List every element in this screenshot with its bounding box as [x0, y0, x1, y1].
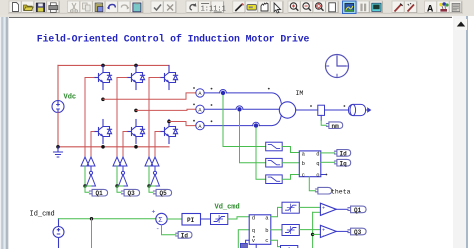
svg-text:Vdc: Vdc	[64, 94, 77, 102]
label tag theta	[316, 187, 332, 194]
wire: buffer B2 input	[122, 166, 124, 171]
wire: top gate leg1	[85, 78, 94, 158]
rerun arrow	[190, 3, 196, 10]
new	[13, 3, 19, 12]
wire: buffer A1 input	[84, 166, 86, 186]
ground	[54, 147, 63, 157]
paste	[95, 2, 103, 12]
svg-text:Q3: Q3	[128, 190, 136, 197]
wire: to Q3 tag	[117, 186, 121, 192]
wire: Vdc top lead	[57, 65, 59, 101]
block PI	[182, 214, 201, 226]
svg-text:c: c	[265, 237, 268, 244]
node: leg3 midpoint	[167, 120, 171, 124]
wire: shaft to load	[325, 109, 349, 111]
zoom in	[290, 3, 298, 11]
svg-text:Q1: Q1	[354, 207, 362, 214]
wire: top gate leg3	[149, 78, 160, 158]
paste teal	[133, 2, 141, 12]
wire: top gate leg2	[117, 78, 127, 158]
wire: branch down	[91, 219, 93, 248]
elements icon	[439, 2, 448, 11]
svg-text:+: +	[152, 209, 156, 216]
gate buffer C2	[151, 157, 159, 166]
wire: bottom DC rail	[58, 146, 169, 148]
wire: motor shaft left	[296, 109, 318, 111]
wire: block bottom stub	[255, 244, 257, 248]
scope	[372, 3, 381, 11]
zoom out	[303, 3, 311, 11]
label tag nm	[327, 122, 343, 129]
label tag Q3 out	[348, 228, 366, 235]
open	[24, 5, 33, 11]
svg-text:-: -	[322, 233, 325, 239]
wire: phase B tap	[136, 109, 196, 110]
node: rail-leg1	[101, 64, 105, 68]
transistor Q4 (bottom IGBT leg1)	[94, 120, 112, 144]
transistor Q2 (bottom IGBT leg3)	[160, 120, 178, 144]
wire: load end arrow	[366, 108, 371, 112]
svg-text:Q5: Q5	[160, 190, 168, 197]
inverter NOT3	[151, 171, 160, 186]
wire: carrier stub 1	[313, 211, 321, 213]
wire: a out to comparator 1	[271, 207, 282, 216]
svg-text:Q1: Q1	[96, 190, 104, 197]
node: leg2 midpoint	[134, 109, 138, 113]
wire: F1 out to abc-dq pin a	[282, 147, 299, 153]
wire: bottom gate leg1	[91, 132, 94, 158]
svg-text:-: -	[156, 226, 160, 233]
wire: phase C to motor	[204, 115, 281, 125]
filter F2	[266, 158, 283, 167]
gate buffer B2	[119, 157, 127, 166]
svg-text:A: A	[198, 90, 202, 97]
op-amp comparator 1	[320, 203, 336, 217]
wire: comp2 to opamp2	[299, 229, 320, 231]
svg-text:v: v	[252, 237, 256, 244]
wire: bottom gate leg3	[155, 132, 160, 158]
label tag Q1 out	[348, 206, 366, 213]
svg-text:d: d	[316, 151, 319, 158]
svg-text:Q3: Q3	[354, 229, 362, 236]
svg-text:theta: theta	[331, 189, 351, 196]
probe 1	[395, 4, 403, 12]
wire: phase A tap	[103, 93, 196, 99]
sensor hoop C	[253, 122, 260, 125]
comparator block 2	[282, 225, 299, 236]
wire: to Q1 tag	[85, 186, 89, 192]
svg-text:nm: nm	[332, 123, 340, 130]
summer S1	[152, 209, 168, 233]
1:1 down	[213, 6, 226, 14]
svg-text:PI: PI	[187, 217, 195, 224]
hand	[261, 3, 268, 11]
svg-text:o: o	[316, 172, 319, 179]
wire: carrier vertical	[312, 212, 314, 248]
wire: summer minus input	[162, 225, 176, 235]
check	[154, 5, 161, 11]
gate buffer A2	[87, 157, 95, 166]
wire: buffer B1 input	[116, 166, 118, 186]
svg-text:Id_cmd: Id_cmd	[30, 211, 55, 219]
wire: NOT3 input	[149, 185, 155, 187]
cut (disabled)	[71, 3, 78, 12]
transistor Q1 (top IGBT leg1)	[94, 66, 112, 90]
wire: probe A sense drop	[223, 96, 266, 147]
pencil	[235, 4, 243, 12]
wire: bottom gate leg2	[123, 132, 127, 158]
sensor hoop A	[220, 90, 227, 93]
node: source-ground junction	[56, 145, 60, 149]
block abc-dq transform	[299, 151, 321, 179]
svg-text:IM: IM	[296, 90, 304, 97]
1:1 up	[201, 4, 214, 14]
wire: top DC rail	[58, 64, 169, 66]
op-amp comparator 2	[320, 225, 336, 239]
wire: q command input	[238, 230, 249, 248]
ammeter Ia	[193, 87, 212, 97]
wire: comp1 to opamp1	[299, 206, 320, 208]
gate drive group leg3	[145, 78, 172, 197]
node: bottomrail-leg1	[101, 145, 105, 149]
run sim	[345, 3, 354, 11]
svg-text:c: c	[302, 172, 305, 179]
node: rail-leg2	[134, 64, 138, 68]
wire: limiter to dq-abc pin d	[228, 217, 249, 219]
node: leg1 midpoint	[101, 98, 105, 102]
svg-text:a: a	[265, 215, 269, 222]
probe 2	[408, 3, 415, 11]
gate drive group leg1	[81, 78, 108, 197]
label tag Id feedback	[176, 232, 192, 239]
comparator block 1	[282, 202, 299, 213]
wire: F3 out to abc-dq pin c	[282, 175, 299, 180]
print	[49, 3, 58, 12]
svg-text:d: d	[252, 215, 255, 222]
wire: theta pin down	[309, 177, 315, 191]
node: Q3 branch	[115, 184, 118, 187]
label capsule	[247, 5, 256, 10]
svg-text:Σ: Σ	[158, 217, 163, 225]
svg-text:q: q	[316, 160, 319, 167]
zoom region	[316, 3, 324, 11]
wire: speed sensor output	[320, 115, 322, 120]
node: Q5 branch	[147, 184, 150, 187]
node: carrier branch	[311, 233, 314, 236]
svg-text:Id: Id	[340, 151, 348, 158]
wire: to Q5 tag	[149, 186, 153, 192]
text A	[427, 4, 433, 15]
fit page	[329, 3, 336, 12]
svg-text:b: b	[302, 160, 305, 167]
wire: NOT2 input	[117, 185, 123, 187]
inverter NOT1	[87, 171, 96, 186]
save	[36, 3, 45, 12]
toolbar	[0, 0, 474, 15]
node: probe C	[254, 123, 258, 127]
wire: F2 out to abc-dq pin b	[282, 162, 299, 164]
copy (disabled)	[83, 3, 91, 11]
transistor Q5 (top IGBT leg3)	[160, 66, 178, 90]
wire: probe B sense drop	[240, 112, 266, 163]
block dq-abc transform	[249, 215, 271, 245]
ammeter Ic	[193, 120, 212, 130]
node: probe B	[237, 107, 241, 111]
wire: q out to Iq tag	[321, 161, 335, 163]
limiter block	[211, 214, 228, 225]
wire: probe C sense drop	[256, 128, 266, 179]
undo	[107, 5, 115, 10]
node: phase A dot	[268, 88, 270, 90]
svg-text:-: -	[322, 211, 325, 217]
gate buffer A1	[81, 157, 89, 166]
wire: phase B to motor	[204, 108, 279, 110]
wire: buffer A2 input	[90, 166, 92, 171]
svg-text:A: A	[198, 123, 202, 130]
cross	[167, 5, 173, 11]
wire: opamp2 out	[336, 230, 348, 232]
node: Q1 branch	[83, 184, 86, 187]
wire: Id_cmd to summer	[59, 218, 156, 220]
svg-text:Vd_cmd: Vd_cmd	[215, 204, 240, 212]
pause	[360, 4, 366, 12]
svg-text:Id: Id	[181, 233, 189, 240]
wire: summer to PI	[167, 218, 182, 220]
filter F3	[266, 175, 283, 184]
label tag Q5	[154, 189, 172, 196]
label tag Iq	[335, 159, 351, 166]
svg-text:a: a	[302, 151, 306, 158]
svg-text:Iq: Iq	[340, 160, 348, 167]
svg-text:A: A	[198, 107, 202, 114]
wire: carrier stub 2	[313, 233, 321, 235]
node: shaft dot	[344, 105, 346, 107]
gate drive group leg2	[113, 78, 140, 197]
wire: phase A to motor	[204, 93, 281, 103]
wire: c out to comparator 3	[271, 240, 281, 246]
transistor Q3 (top IGBT leg2)	[127, 66, 145, 90]
svg-text:b: b	[265, 227, 268, 234]
speed sensor box	[318, 105, 325, 115]
node: bottomrail-leg2	[134, 145, 138, 149]
wire: PI to limiter	[201, 218, 211, 220]
clock	[326, 55, 349, 78]
wire: Vdc bottom lead	[57, 113, 59, 147]
node: Id_cmd branch	[90, 217, 93, 220]
wire: opamp1 out	[336, 208, 348, 210]
wire: NOT1 input	[85, 185, 91, 187]
label tag Q3	[122, 189, 140, 196]
node: probe A	[221, 91, 225, 95]
inverter NOT2	[119, 171, 128, 186]
mechanical load	[349, 104, 366, 115]
wire: theta pin to tag	[246, 240, 250, 243]
sensor hoop B	[236, 106, 243, 109]
label tag theta2 (cut)	[240, 243, 247, 248]
wire: buffer C2 input	[154, 166, 156, 171]
wire: phase C tap	[169, 122, 196, 126]
wire: o stub	[321, 174, 325, 176]
wire: buffer C1 input	[148, 166, 150, 186]
filter F1	[266, 142, 283, 151]
svg-text:Field-Oriented Control of Indu: Field-Oriented Control of Induction Moto…	[37, 33, 310, 44]
gate buffer B1	[113, 157, 121, 166]
svg-text:q: q	[252, 227, 255, 234]
source Vdc	[52, 101, 64, 113]
wire: d out to Id tag	[321, 152, 335, 154]
gate buffer C1	[145, 157, 153, 166]
label tag Id	[335, 150, 351, 157]
stamp icon	[452, 3, 460, 11]
wire: b out to comparator 2	[271, 229, 282, 231]
source Id_cmd	[53, 219, 64, 248]
cursor	[274, 3, 281, 13]
transistor Q6 (bottom IGBT leg2)	[127, 120, 145, 144]
label tag Q1	[90, 189, 108, 196]
motor IM	[279, 102, 295, 118]
ammeter Ib	[193, 104, 212, 114]
redo (disabled)	[121, 5, 129, 10]
comparator block 3 (cut)	[281, 246, 298, 249]
